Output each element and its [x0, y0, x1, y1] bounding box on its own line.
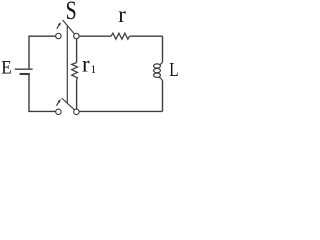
- svg-text:S: S: [66, 0, 77, 25]
- resistor r1 branch upper wire: [76, 39, 78, 63]
- wire right rail upper: [162, 36, 164, 61]
- switch S top blade: [63, 20, 75, 34]
- wire top: switch to resistor r: [79, 35, 111, 37]
- resistor r1 zigzag: [72, 63, 78, 80]
- wire left rail bottom: battery bottom to bottom-left corner: [29, 74, 56, 111]
- switch S bottom right contact: [74, 109, 80, 115]
- switch link bar: [66, 26, 68, 103]
- battery E short plate: [20, 73, 30, 75]
- resistor r1 branch lower wire: [76, 79, 78, 109]
- switch S top right contact: [74, 33, 80, 39]
- svg-text:r: r: [82, 52, 90, 77]
- svg-text:r: r: [118, 2, 126, 27]
- battery E long plate: [15, 68, 33, 70]
- switch S top left contact: [56, 33, 62, 39]
- svg-text:1: 1: [91, 64, 97, 76]
- switch S bottom left contact: [56, 109, 62, 115]
- wire top-left: battery top to switch left contact: [29, 36, 56, 69]
- switch S bottom blade: [62, 98, 75, 110]
- wire bottom: [79, 110, 162, 112]
- switch S top arrow: [57, 22, 61, 29]
- switch S bottom arrow: [56, 99, 60, 106]
- svg-text:E: E: [1, 57, 11, 78]
- wire top-right: resistor r to corner: [130, 35, 163, 37]
- inductor L coil: [154, 62, 163, 82]
- resistor r zigzag: [111, 33, 130, 39]
- svg-text:L: L: [169, 59, 178, 81]
- wire right rail lower: [162, 81, 164, 111]
